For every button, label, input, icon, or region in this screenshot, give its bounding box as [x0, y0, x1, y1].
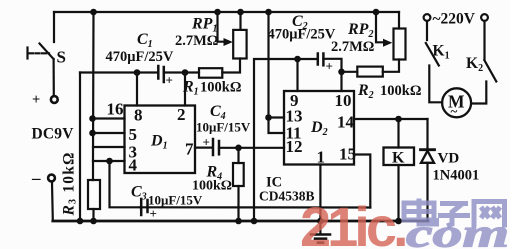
svg-text:+: +	[150, 206, 157, 221]
wire R1 to RP1 bottom	[222, 59, 240, 73]
svg-text:10μF/15V: 10μF/15V	[196, 120, 251, 135]
wire switch to + terminal	[52, 59, 54, 95]
ground	[319, 208, 321, 234]
svg-text:4: 4	[129, 156, 138, 175]
node junction dot C4/R4/pin12	[235, 145, 242, 152]
capacitor C1 plates	[157, 66, 160, 79]
contact K2 upper lead	[483, 21, 485, 59]
svg-text:12: 12	[286, 137, 303, 156]
wire R2 to RP2 bottom	[383, 60, 399, 72]
svg-text:16: 16	[107, 100, 124, 119]
wire C1 right to R1	[164, 71, 199, 73]
node junction dot pin2	[182, 69, 189, 76]
wire pin3	[93, 146, 125, 148]
svg-text:10: 10	[335, 91, 352, 110]
node junction dot rail ground symbol	[317, 218, 324, 225]
node junction dot pin14/relay	[395, 116, 402, 123]
wire RP2 top lead / rail end corner	[398, 12, 400, 29]
node rail-switch corner	[53, 12, 55, 42]
switch S actuator bar	[26, 48, 28, 59]
wire signal gnd y207.5	[140, 206, 370, 208]
svg-text:~220V: ~220V	[433, 11, 476, 28]
wire R4 bottom lead	[237, 186, 239, 221]
wire pin4 branch down to C3	[110, 161, 141, 207]
svg-text:+: +	[32, 92, 40, 108]
node junction dot pin16	[89, 115, 96, 122]
relay K coil box	[384, 148, 415, 166]
wire R3 bottom lead to rail	[92, 209, 94, 221]
wire pin9 vertical	[296, 59, 298, 91]
wire pin2 vertical	[184, 73, 186, 106]
contact K2 blade	[484, 60, 496, 82]
wire relay K top lead	[397, 119, 399, 148]
svg-text:5: 5	[129, 125, 138, 144]
node junction dot pin8	[134, 69, 141, 76]
wire RP2 wiper	[376, 12, 383, 42]
svg-text:100kΩ: 100kΩ	[192, 179, 232, 194]
svg-text:–: –	[31, 169, 41, 188]
svg-text:+: +	[203, 135, 210, 150]
wire pin15	[354, 155, 370, 208]
contact K1 upper lead	[426, 21, 428, 40]
node junction dot rail relay K	[395, 218, 402, 225]
svg-text:+: +	[326, 59, 333, 74]
wire pin14 corner to diode	[426, 119, 428, 149]
watermark dianziwang glyphs	[404, 199, 505, 228]
node junction dot pin13	[265, 114, 272, 121]
capacitor C2 plates	[317, 54, 320, 65]
wire VDD left bus	[92, 12, 95, 180]
potentiometer RP2 body	[394, 29, 406, 60]
wire R2 left lead	[342, 71, 358, 73]
svg-text:1: 1	[317, 148, 326, 167]
node AC terminal left	[424, 14, 431, 21]
node RP1 wiper arrowhead	[224, 38, 233, 46]
watermark com	[406, 211, 509, 249]
potentiometer RP1 body	[233, 30, 246, 59]
node junction dot A (bus top)	[90, 9, 97, 16]
contact K1 lower lead	[429, 66, 442, 103]
wire pin13	[269, 116, 285, 118]
wire pin13/11 branch from rail	[269, 12, 285, 133]
node junction dot RP1 wiper	[214, 9, 221, 16]
svg-text:8: 8	[134, 106, 143, 125]
svg-text:100kΩ: 100kΩ	[200, 80, 241, 96]
node battery + terminal	[51, 96, 58, 103]
wire C2 right corner to pin10	[323, 59, 341, 91]
node junction dot pin5	[89, 130, 96, 137]
motor M circle	[442, 88, 471, 117]
wire pin7 to C4	[195, 147, 213, 149]
op-amp U1: IC D1 box	[125, 106, 196, 174]
node junction dot pin9	[294, 56, 301, 63]
wire RP1 top lead	[239, 12, 241, 30]
wire RP1 wiper	[218, 12, 225, 42]
node junction dot rail x80	[77, 218, 84, 225]
svg-text:15: 15	[339, 145, 356, 164]
switch S blade	[40, 44, 54, 60]
op-amp U2: IC D2 box	[284, 91, 354, 165]
svg-text:14: 14	[337, 113, 355, 132]
svg-text:~: ~	[451, 104, 458, 119]
wire C1 net y72 left segment	[80, 71, 158, 73]
node AC terminal right	[481, 14, 488, 21]
svg-text:1N4001: 1N4001	[433, 168, 480, 184]
wire - terminal to bottom rail	[51, 183, 54, 221]
wire bottom GND rail	[53, 220, 428, 223]
wire top VDD rail	[54, 11, 399, 13]
node junction dot RP1 top	[237, 9, 244, 16]
wire diode to rail	[426, 163, 428, 221]
node RP2 wiper arrowhead	[383, 39, 392, 47]
wire x80 down to rail	[79, 73, 81, 222]
capacitor C3 plates	[140, 199, 143, 215]
node junction dot RP2 wiper	[373, 9, 380, 16]
wire relay K bottom lead	[397, 165, 399, 221]
resistor R2 body	[357, 67, 383, 77]
wire C2 gnd branch x254	[254, 59, 317, 221]
svg-text:21ic.: 21ic.	[300, 195, 405, 249]
wire R4 top lead	[237, 148, 239, 163]
contact K1 blade	[426, 43, 439, 66]
svg-text:2.7MΩ: 2.7MΩ	[331, 39, 374, 55]
node junction dot C2/R2/pin10	[338, 69, 345, 76]
node junction dot rail R3	[90, 218, 97, 225]
wire pin5	[93, 132, 125, 134]
svg-text:470μF/25V: 470μF/25V	[106, 49, 174, 65]
capacitor C4 plates	[212, 139, 215, 155]
node junction dot rail R4	[235, 218, 242, 225]
svg-text:DC9V: DC9V	[32, 126, 75, 143]
svg-text:470μF/25V: 470μF/25V	[268, 27, 336, 43]
switch S actuator dashes	[29, 52, 49, 54]
wire pin4	[93, 160, 125, 162]
node junction dot pin4/C3	[106, 158, 113, 165]
svg-text:K: K	[392, 150, 405, 167]
svg-text:VD: VD	[438, 151, 460, 167]
wire pin14	[354, 118, 428, 120]
svg-text:+: +	[166, 73, 173, 88]
diode VD cathode bar	[421, 148, 435, 151]
node junction dot rail C2gnd	[251, 218, 258, 225]
node battery - terminal	[48, 175, 55, 182]
wire pin16	[93, 117, 125, 119]
svg-text:2: 2	[177, 105, 186, 124]
svg-text:100kΩ: 100kΩ	[380, 83, 421, 99]
svg-text:R3 10kΩ: R3 10kΩ	[61, 151, 79, 216]
svg-text:2.7MΩ: 2.7MΩ	[175, 33, 218, 49]
diode VD triangle	[421, 151, 434, 163]
resistor R4 body	[233, 163, 244, 186]
wire pin8 vertical	[136, 73, 138, 106]
wire pin1 vertical	[319, 165, 321, 208]
resistor R1 body	[199, 68, 222, 78]
svg-text:7: 7	[185, 140, 194, 159]
watermark 21ic	[300, 195, 405, 249]
node junction dot D2 pin13 branch	[265, 9, 272, 16]
contact K2 lower lead	[471, 82, 486, 104]
resistor R3 body	[88, 180, 100, 209]
wire C4 right to D2 pin12	[219, 147, 284, 149]
svg-text:S: S	[57, 48, 66, 67]
